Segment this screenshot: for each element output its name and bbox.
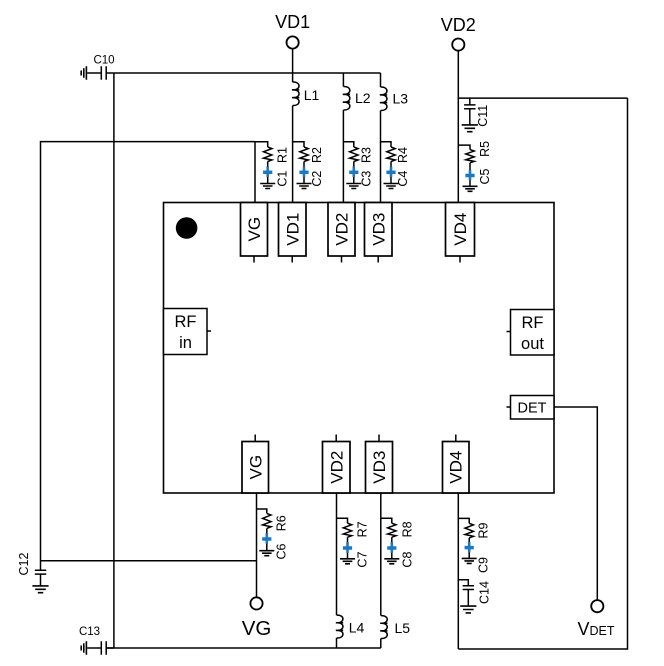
resistor R5 <box>458 141 492 163</box>
svg-text:VD4: VD4 <box>447 451 466 484</box>
ground <box>259 551 274 556</box>
svg-text:C10: C10 <box>93 54 114 66</box>
node VD1 <box>275 12 310 48</box>
ground <box>346 184 361 189</box>
resistor R7 <box>337 518 370 537</box>
pin VD2 bottom <box>323 435 351 494</box>
capacitor C8 <box>387 537 415 567</box>
capacitor C2 <box>299 162 324 187</box>
svg-text:C9: C9 <box>477 557 491 573</box>
pin VD3 top <box>365 203 393 263</box>
resistor R4 <box>381 142 410 163</box>
svg-text:C12: C12 <box>17 552 31 575</box>
amplifier U1 <box>164 203 555 494</box>
wire <box>457 51 459 203</box>
wire VG left rail <box>41 142 256 571</box>
svg-text:C2: C2 <box>310 171 324 187</box>
svg-text:R6: R6 <box>274 515 288 531</box>
wire <box>342 110 344 203</box>
svg-text:C13: C13 <box>79 626 100 638</box>
svg-text:C6: C6 <box>274 543 288 559</box>
pin VD4 top <box>446 203 475 263</box>
ground <box>260 184 275 189</box>
inductor L2 <box>343 73 371 110</box>
inductor L5 <box>380 493 410 639</box>
wire <box>292 106 294 203</box>
pin VD4 bottom <box>443 435 470 494</box>
capacitor C10 <box>87 54 114 79</box>
wire <box>380 111 382 203</box>
ground <box>462 125 478 132</box>
capacitor C13 <box>79 626 114 655</box>
resistor R3 <box>343 142 373 163</box>
resistor R1 <box>255 142 289 163</box>
ground <box>81 66 86 80</box>
pin 1 marker <box>176 217 198 239</box>
pin RF out <box>507 310 555 356</box>
svg-text:R2: R2 <box>310 147 324 163</box>
svg-text:C5: C5 <box>478 168 492 184</box>
svg-text:R5: R5 <box>478 141 492 157</box>
ground <box>384 559 399 564</box>
svg-text:RF: RF <box>175 313 197 331</box>
pin VD2 top <box>328 203 355 263</box>
svg-text:R4: R4 <box>396 147 410 163</box>
node VDET <box>578 600 615 639</box>
wire right vertical rail <box>458 98 627 649</box>
svg-text:L5: L5 <box>395 620 411 636</box>
wire <box>336 638 338 648</box>
node VD2 <box>441 15 476 51</box>
svg-text:RF: RF <box>522 314 544 332</box>
inductor L4 <box>336 493 365 638</box>
ground <box>384 184 399 189</box>
wire <box>292 48 294 82</box>
wire VD1 top rail <box>114 72 381 74</box>
wire <box>380 639 382 649</box>
svg-text:R3: R3 <box>360 147 374 163</box>
capacitor C14 <box>458 580 491 606</box>
wire VG top pin drop <box>254 142 256 203</box>
capacitor C5 <box>465 163 492 187</box>
svg-text:L3: L3 <box>393 90 409 106</box>
svg-text:R8: R8 <box>401 521 415 537</box>
svg-text:in: in <box>179 334 192 352</box>
svg-text:C14: C14 <box>478 581 492 604</box>
ground <box>462 558 477 563</box>
pin VD3 bottom <box>366 435 393 494</box>
svg-text:R7: R7 <box>356 521 370 537</box>
svg-text:VD2: VD2 <box>333 213 352 246</box>
svg-text:R9: R9 <box>477 522 491 538</box>
ground <box>460 606 476 613</box>
svg-text:C3: C3 <box>360 171 374 187</box>
capacitor C6 <box>262 528 288 559</box>
svg-text:C8: C8 <box>401 552 415 568</box>
ground <box>32 586 48 593</box>
svg-text:VD3: VD3 <box>370 451 389 484</box>
wire VD4 bottom drop <box>457 493 459 649</box>
svg-text:R1: R1 <box>275 147 289 163</box>
capacitor C12 <box>17 552 46 585</box>
capacitor C4 <box>386 162 409 187</box>
ground <box>81 641 86 655</box>
capacitor C9 <box>465 538 491 573</box>
pin VG top <box>241 203 268 263</box>
svg-text:out: out <box>521 335 544 353</box>
ground <box>463 186 478 191</box>
svg-text:VG: VG <box>246 455 265 480</box>
inductor L3 <box>380 73 408 111</box>
svg-text:VG: VG <box>242 617 272 640</box>
svg-text:C1: C1 <box>275 171 289 187</box>
pin VD1 top <box>279 203 307 263</box>
svg-text:VD3: VD3 <box>369 213 388 246</box>
svg-text:VDET: VDET <box>578 619 615 639</box>
pin RF in <box>164 309 212 355</box>
svg-text:VD4: VD4 <box>451 213 470 246</box>
capacitor C1 <box>263 162 289 187</box>
capacitor C3 <box>349 162 373 187</box>
resistor R9 <box>458 518 490 538</box>
node VG <box>242 597 272 640</box>
wire VD2 top rail <box>458 97 627 99</box>
svg-text:L4: L4 <box>349 620 365 636</box>
svg-text:C11: C11 <box>476 105 490 127</box>
inductor L1 <box>292 82 320 106</box>
svg-text:DET: DET <box>518 401 547 417</box>
ground <box>340 559 355 564</box>
capacitor C11 <box>464 98 490 127</box>
resistor R8 <box>381 518 415 537</box>
pin VG bottom <box>242 435 269 494</box>
wire DET to VDET <box>554 407 597 600</box>
wire bottom-left rail <box>107 647 381 649</box>
svg-text:VD2: VD2 <box>441 15 476 35</box>
capacitor C7 <box>343 537 370 567</box>
svg-text:C7: C7 <box>356 552 370 568</box>
svg-text:VD1: VD1 <box>283 213 302 246</box>
svg-text:VD2: VD2 <box>327 451 346 484</box>
pin DET <box>507 396 555 420</box>
wire <box>256 493 258 598</box>
ground <box>297 184 312 189</box>
wire VG cross line <box>41 560 257 562</box>
wire left vertical rail <box>113 73 115 648</box>
resistor R2 <box>293 142 325 163</box>
svg-text:L1: L1 <box>304 87 320 103</box>
svg-text:VD1: VD1 <box>275 12 310 32</box>
resistor R6 <box>257 509 289 531</box>
svg-text:VG: VG <box>245 217 264 242</box>
svg-text:L2: L2 <box>355 90 371 106</box>
